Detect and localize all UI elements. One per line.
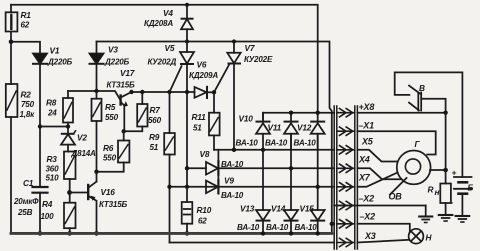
svg-text:62: 62: [21, 21, 30, 30]
svg-text:КУ202Д: КУ202Д: [148, 58, 177, 67]
svg-text:51: 51: [193, 124, 202, 133]
wire R3/R4 junction to V16 base: [70, 192, 88, 194]
label Г: [415, 139, 421, 149]
wire ground rail: [11, 232, 332, 235]
diode V15: [311, 210, 325, 236]
diode V9: [206, 180, 218, 193]
node V7 line / X5 wire: [232, 148, 236, 152]
svg-text:ВА-10: ВА-10: [236, 139, 259, 148]
node R8 bottom / V2 cathode: [66, 124, 70, 128]
label -Х2: [360, 212, 376, 222]
wire X4 row right segment: [218, 167, 334, 169]
label +Х8: [359, 102, 375, 112]
label V11: [268, 123, 282, 133]
node second rail V4 junction: [185, 39, 189, 43]
svg-text:Х7: Х7: [358, 173, 371, 183]
svg-text:V3: V3: [108, 45, 118, 55]
lamp Н: [409, 229, 424, 244]
svg-text:Х3: Х3: [364, 231, 376, 241]
node V3/R5 junction: [94, 89, 98, 93]
node V4 top junction: [185, 3, 189, 7]
label V12: [297, 123, 312, 133]
wire field winding OB lead: [390, 178, 407, 195]
label V17 КТ315Б: [107, 68, 136, 90]
label V2: [77, 133, 87, 143]
node V17 emitter junction: [122, 129, 126, 133]
label V1 Д220Б: [47, 46, 73, 67]
svg-text:V6: V6: [197, 60, 207, 70]
label 20мкФ 25В: [13, 197, 39, 217]
label C1: [23, 178, 34, 188]
label Х5: [361, 137, 374, 147]
node V16 collector junction: [94, 170, 98, 174]
label V6 КД209А: [189, 60, 218, 81]
wire +X8 to switch junction: [357, 112, 445, 114]
wire V5 gate: [170, 66, 182, 92]
label R3 360 510: [46, 154, 60, 183]
svg-text:В: В: [419, 83, 425, 93]
node X7 row left junction: [167, 185, 171, 189]
resistor R6: [97, 131, 130, 171]
svg-text:КУ202Е: КУ202Е: [244, 55, 273, 64]
wire collector bus to V6: [132, 91, 195, 93]
wire X5 row: [214, 149, 334, 151]
label Д814А: [71, 149, 97, 158]
wire V7 gate: [214, 65, 229, 93]
node R10 top junction: [185, 185, 189, 189]
svg-text:КТ315Б: КТ315Б: [107, 81, 136, 90]
wire OB row: [334, 205, 426, 207]
svg-text:V5: V5: [165, 43, 175, 53]
node charge line tap: [443, 168, 448, 173]
svg-text:20мкФ: 20мкФ: [13, 197, 39, 206]
connector contact row 2: [337, 127, 355, 135]
label Н: [426, 233, 433, 243]
diode V6: [195, 87, 215, 98]
resistor R5: [92, 91, 102, 172]
wire +X8 row: [263, 113, 334, 122]
wire phase1 column: [262, 150, 264, 210]
connector contact row 6: [337, 201, 355, 209]
svg-text:R1: R1: [21, 10, 32, 20]
svg-text:–Х2: –Х2: [360, 212, 376, 222]
diode V10: [256, 113, 270, 150]
node -X2 row / rail tie: [330, 222, 334, 226]
connector contact row 5: [337, 183, 355, 191]
node V17 collector bus start: [129, 90, 133, 94]
label V7 КУ202Е: [244, 43, 273, 64]
label V3 Д220Б: [104, 45, 130, 67]
svg-text:н: н: [435, 187, 440, 197]
node R9 top / V5 gate junction: [167, 90, 171, 94]
wire X4 funnel to generator: [357, 168, 401, 179]
svg-text:R3: R3: [47, 154, 58, 164]
svg-text:-: -: [451, 197, 454, 207]
node R1 bottom junction: [9, 40, 14, 45]
wire X3 rail: [170, 242, 335, 244]
svg-text:V13: V13: [240, 204, 255, 214]
svg-text:ВА-10: ВА-10: [294, 139, 317, 148]
node second rail V7 junction: [232, 39, 236, 43]
label R11 51: [192, 112, 207, 133]
label Х4: [358, 155, 370, 165]
svg-text:R6: R6: [103, 143, 114, 153]
wire X4 row left segment to V8 anode: [187, 167, 206, 169]
wire X5 funnel to generator: [357, 150, 397, 162]
svg-text:1,8к: 1,8к: [20, 110, 36, 119]
svg-text:–Х2: –Х2: [359, 194, 375, 204]
label Х7: [358, 173, 371, 183]
node V12 top / top rail drop: [316, 111, 320, 115]
svg-text:КД209А: КД209А: [189, 71, 218, 80]
svg-text:Д220Б: Д220Б: [47, 58, 73, 67]
svg-text:КД208А: КД208А: [144, 19, 173, 28]
node phase1 tap on X5: [261, 148, 265, 152]
svg-text:R7: R7: [150, 105, 161, 115]
svg-text:550: 550: [105, 113, 119, 122]
svg-text:Д220Б: Д220Б: [104, 58, 130, 67]
diode V12: [311, 113, 325, 150]
node R4 ground: [67, 231, 72, 236]
wire -X2 row to lamp: [357, 224, 409, 232]
svg-text:V1: V1: [50, 46, 60, 56]
resistor R8: [63, 91, 73, 127]
resistor R11: [209, 92, 220, 150]
wire V1 cathode down: [39, 64, 41, 127]
svg-text:R: R: [428, 185, 434, 195]
label R10 62: [197, 205, 212, 226]
diode V14: [284, 210, 298, 236]
label R8 24: [46, 98, 57, 118]
ground OB: [419, 206, 432, 223]
label V16 КТ315Б: [99, 187, 128, 209]
diode V13: [256, 210, 270, 236]
wire charge line down to Rn: [445, 113, 447, 184]
label + battery: [452, 168, 457, 178]
label R6 550: [103, 143, 117, 163]
svg-text:V7: V7: [245, 43, 255, 53]
svg-text:R2: R2: [21, 90, 32, 100]
connector contact row 7: [337, 220, 355, 228]
resistor R2: [6, 42, 18, 117]
node R10 ground: [185, 231, 190, 236]
resistor R10: [182, 187, 193, 234]
battery Б: [454, 177, 472, 216]
svg-text:750: 750: [21, 100, 35, 109]
label -Х2 ОВ: [359, 192, 403, 204]
resistor Rн: [440, 184, 451, 215]
wire second rail: [97, 42, 332, 234]
svg-text:510: 510: [46, 174, 60, 183]
svg-text:V16: V16: [101, 187, 116, 197]
label Б: [468, 183, 474, 193]
node V6 anode junction: [185, 90, 189, 94]
diode V3: [90, 42, 104, 92]
ground Rн: [439, 215, 453, 221]
svg-text:ВА-10: ВА-10: [266, 223, 289, 232]
svg-text:С1: С1: [23, 178, 34, 188]
svg-text:+Х8: +Х8: [359, 102, 375, 112]
connector contact row 1: [337, 109, 355, 117]
svg-text:62: 62: [198, 217, 207, 226]
label R1 62: [21, 10, 32, 30]
svg-text:360: 360: [46, 165, 60, 174]
svg-text:R11: R11: [192, 112, 207, 122]
wire phase3 column: [317, 134, 319, 210]
node C1 ground: [38, 231, 43, 236]
switch B circuit loop: [395, 72, 463, 177]
wire junction to R8 bottom and V2: [40, 126, 68, 128]
svg-text:Х5: Х5: [361, 137, 374, 147]
label Х3: [364, 231, 376, 241]
svg-text:V15: V15: [300, 204, 315, 214]
label R4 100: [41, 199, 55, 221]
resistor R3: [64, 152, 76, 203]
svg-text:V14: V14: [271, 204, 286, 214]
svg-text:R5: R5: [105, 102, 116, 112]
diode V1: [33, 54, 47, 64]
wire base bus R8 to V17: [68, 91, 120, 99]
zener diode V2 Д814А: [61, 127, 76, 152]
node switch junction: [443, 111, 447, 115]
label V9 ВА-10: [221, 176, 244, 201]
label V5 КУ202Д: [148, 43, 177, 67]
wire phase2 column: [290, 134, 292, 210]
node V5 line / X4 wire: [185, 166, 189, 170]
label R5 550: [105, 102, 119, 122]
diode V4: [181, 5, 193, 42]
wire -X1 to generator: [357, 131, 435, 154]
svg-text:ВА-10: ВА-10: [237, 223, 260, 232]
svg-text:25В: 25В: [17, 208, 33, 217]
node V11 top: [289, 111, 293, 115]
label R9 51: [149, 132, 160, 152]
node phase3 tap on X7: [316, 185, 320, 189]
transistor V17: [121, 92, 132, 131]
label V8 ВА-10: [200, 149, 244, 169]
svg-text:V4: V4: [163, 8, 173, 18]
svg-text:R10: R10: [197, 205, 212, 215]
node V16 emitter ground: [94, 231, 99, 236]
label ВА-10 bottom trio: [237, 223, 317, 232]
svg-text:560: 560: [148, 116, 162, 125]
svg-text:V9: V9: [224, 176, 234, 186]
wire X3 row to lamp: [357, 240, 409, 243]
svg-text:КТ315Б: КТ315Б: [99, 200, 128, 209]
svg-text:R8: R8: [46, 98, 57, 108]
generator rotor inner circle: [405, 159, 420, 174]
svg-text:ВА-10: ВА-10: [295, 223, 318, 232]
svg-text:100: 100: [41, 212, 55, 221]
capacitor C1: [33, 127, 48, 234]
node V1 line to R8/V2 junction: [38, 124, 42, 128]
svg-text:+: +: [452, 168, 457, 178]
label V13 V14 V15: [240, 204, 314, 214]
connector contact row 8: [337, 238, 355, 246]
label V10: [239, 114, 254, 124]
svg-text:V11: V11: [268, 123, 282, 133]
generator Г outer circle: [397, 151, 431, 185]
svg-text:R9: R9: [149, 132, 160, 142]
wire generator output to charge line: [430, 169, 446, 171]
svg-text:V17: V17: [120, 68, 135, 78]
switch B contacts: [409, 86, 446, 113]
node R3/R4 base junction: [67, 190, 72, 195]
wire R2 bottom to ground rail: [10, 117, 12, 233]
resistor R4: [64, 203, 76, 234]
connector contact row 4: [337, 164, 355, 172]
diode V8: [206, 161, 218, 175]
resistor R7: [124, 92, 148, 131]
resistor R1: [6, 5, 18, 40]
svg-text:V12: V12: [297, 123, 312, 133]
wire R1 junction to V1 anode: [11, 42, 40, 54]
svg-text:ВА-10: ВА-10: [265, 139, 288, 148]
svg-text:ВА-10: ВА-10: [221, 191, 244, 200]
wire X7 row: [170, 186, 335, 188]
svg-text:V10: V10: [239, 114, 254, 124]
wire V8/V9 cathode tie: [217, 150, 219, 187]
label В switch: [419, 83, 425, 93]
svg-text:–Х1: –Х1: [359, 121, 375, 131]
connector plug halves X: [334, 106, 357, 249]
resistor R9: [164, 92, 175, 243]
label R2 750 1,8к: [20, 90, 36, 120]
connector contact row 3: [337, 146, 355, 154]
svg-text:Б: Б: [468, 183, 474, 193]
svg-text:51: 51: [150, 143, 159, 152]
wire -X2 row left stub: [332, 223, 334, 225]
wire X7 funnel to generator: [357, 173, 397, 187]
node V6 cathode / R11 / V7 gate: [212, 90, 216, 94]
svg-text:R4: R4: [42, 199, 53, 209]
svg-text:550: 550: [103, 154, 117, 163]
label -Х1: [359, 121, 375, 131]
ground battery: [456, 216, 470, 222]
svg-text:Х4: Х4: [358, 155, 370, 165]
thyristor V5: [180, 42, 194, 187]
svg-text:24: 24: [47, 109, 57, 118]
diode V11: [284, 113, 298, 150]
label - battery: [451, 197, 454, 207]
label Rн: [428, 185, 440, 198]
node phase2 tap on X4: [289, 166, 293, 170]
svg-text:V2: V2: [77, 133, 87, 143]
label ВА-10 trio: [236, 139, 317, 148]
label V4 КД208А: [144, 8, 173, 28]
transistor V16: [88, 172, 96, 234]
wire top positive rail: [11, 5, 318, 113]
svg-text:V8: V8: [200, 149, 210, 159]
node R7 top: [140, 90, 144, 94]
thyristor V7: [227, 42, 240, 150]
label R7 560: [148, 105, 162, 125]
